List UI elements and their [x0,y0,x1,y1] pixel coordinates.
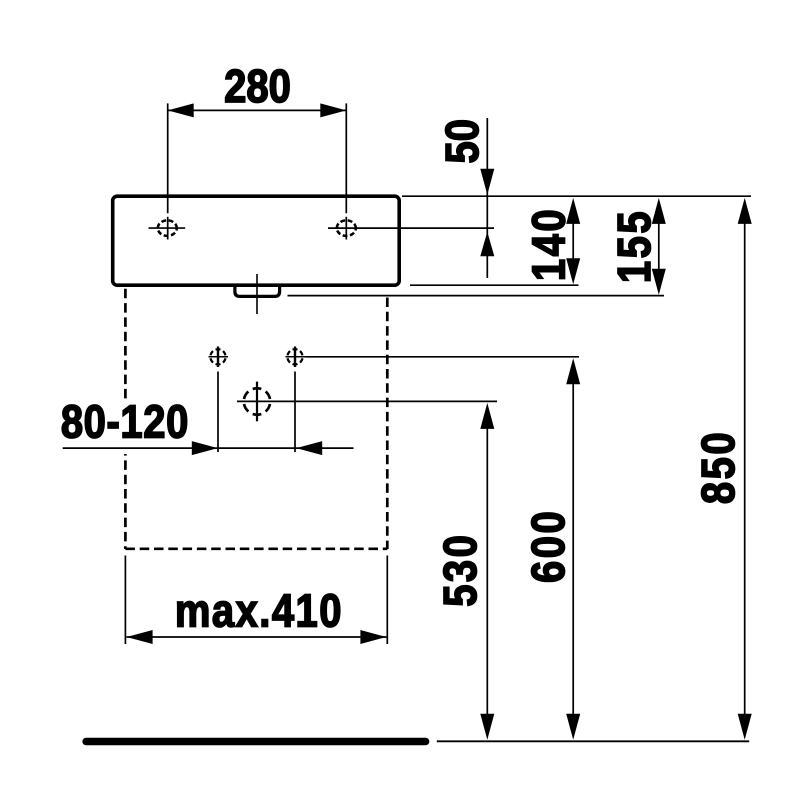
svg-text:80-120: 80-120 [61,397,189,448]
dim max410 right arrow [360,630,386,644]
basin outline [113,196,400,285]
dim 50 upper line [486,118,488,278]
drain extension line [237,400,497,402]
dim 155 down arrow [652,269,666,295]
screw hole extension line [306,356,579,358]
tab bottom extension line [288,295,665,297]
dim 140 line [572,222,574,260]
pedestal dashed bottom [125,547,387,550]
svg-text:140: 140 [524,207,575,281]
svg-text:50: 50 [437,119,488,163]
tab center line [256,274,258,314]
floor line thick [86,738,426,746]
dim 850 up arrow [738,198,752,224]
dim 280 ext right [345,103,347,213]
dim max410 left arrow [127,630,153,644]
floor line thin [437,740,749,742]
dim 50 up arrow [480,232,494,257]
svg-text:155: 155 [609,209,660,283]
tap hole right [337,220,356,236]
screw hole right stub [294,372,296,453]
screw hole left arms [209,356,229,358]
pedestal dashed right [386,298,389,550]
dim 530 up arrow [480,403,494,429]
dim 850 down arrow [738,714,752,740]
svg-text:280: 280 [224,61,291,112]
svg-text:530: 530 [435,533,486,607]
screw hole left stub [217,372,219,453]
svg-text:850: 850 [693,430,744,504]
dim 600 up arrow [566,358,580,384]
dim 80-120 line [63,447,354,449]
dim 850 line [744,222,746,715]
dim 280 line [168,109,347,111]
tap hole left arm [149,227,186,229]
dim 600 line [572,383,574,714]
label 80-120 mask [58,399,192,454]
tap hole center extension line [328,227,494,229]
pedestal dashed left [124,289,127,549]
dim 50 down arrow [480,169,494,195]
screw hole left [211,349,226,364]
dim 600 down arrow [566,714,580,740]
drain hole circle [244,388,270,414]
basin bottom extension line [410,284,579,286]
dim max410 line [126,636,386,638]
drain tab [235,284,280,297]
max410 ext right [386,556,388,645]
dim 140 down arrow [566,258,580,284]
max410 ext left [124,556,126,645]
svg-text:600: 600 [523,509,574,583]
dim 80-120 right arrow [192,441,218,455]
screw hole right arms [286,356,307,358]
dim 530 down arrow [480,714,494,740]
svg-text:max.410: max.410 [175,586,343,637]
screw hole right [288,349,303,364]
dim 140 up arrow [566,198,580,224]
dim 280 arrow right [320,103,346,117]
dim 155 up arrow [652,198,666,224]
dim 80-120 left arrow [296,441,322,455]
tap hole left [158,220,177,236]
dim 530 line [486,428,488,714]
dim 280 ext left [167,103,169,213]
dim 155 line [658,222,660,270]
dim 280 arrow left [168,103,194,117]
drain hole vertical line [256,382,258,422]
top edge extension line [402,195,751,197]
